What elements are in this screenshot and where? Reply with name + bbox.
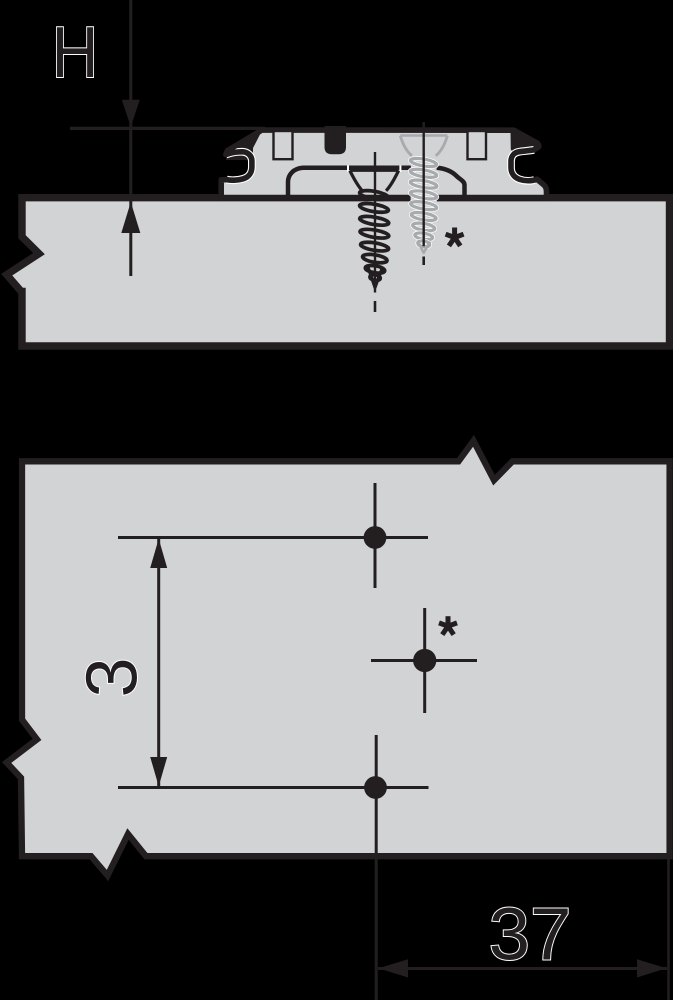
plate diagonal gusset right — [511, 131, 539, 153]
dim 37 line — [378, 967, 667, 970]
hole B — [413, 649, 436, 672]
svg-text:3: 3 — [73, 657, 153, 697]
svg-text:H: H — [52, 12, 99, 93]
mounting plate white keyline right hook — [511, 150, 535, 181]
hole C crosshair — [118, 735, 429, 1000]
euro screw center line — [423, 122, 425, 246]
mounting plate white keyline left hook — [226, 152, 252, 180]
dim 3 arrow down — [150, 757, 167, 786]
mounting plate body fill — [221, 130, 546, 198]
svg-text:37: 37 — [489, 893, 572, 976]
board cross-section (top view) — [7, 198, 673, 346]
H dim arrow down — [122, 100, 140, 127]
euro screw tip — [418, 241, 431, 253]
plate inner arch — [288, 168, 465, 195]
panel (plan view) — [7, 441, 670, 876]
hole A — [364, 526, 387, 549]
plate diagonal gusset left — [226, 133, 261, 161]
wood screw tip — [368, 267, 382, 288]
wood screw center line — [374, 152, 376, 293]
dim 37 arrow left — [379, 959, 409, 977]
mounting plate outline — [221, 130, 546, 198]
plate U-notch left — [325, 126, 347, 154]
hole A crosshair — [118, 483, 428, 588]
H reference line — [70, 127, 265, 130]
euro screw head — [400, 136, 447, 156]
hole C — [364, 776, 387, 799]
wood screw head — [350, 170, 399, 191]
dim 37 arrow right — [637, 959, 667, 977]
H dim arrow up — [121, 202, 140, 233]
dim 3 arrow up — [150, 539, 167, 568]
hole B crosshair — [371, 608, 477, 713]
plate slot left — [274, 131, 293, 159]
H dimension line — [129, 0, 132, 276]
euro screw body fill — [400, 136, 447, 254]
euro screw thread coils — [410, 157, 437, 168]
wood screw thread coils — [359, 189, 389, 281]
asterisk (side view) — [446, 228, 464, 246]
wood screw head corner ticks — [347, 166, 349, 173]
plate slot right — [468, 131, 487, 159]
dim 37 extension line — [667, 858, 670, 1000]
dim 3 line — [157, 538, 160, 787]
asterisk (plan view) — [439, 616, 457, 634]
